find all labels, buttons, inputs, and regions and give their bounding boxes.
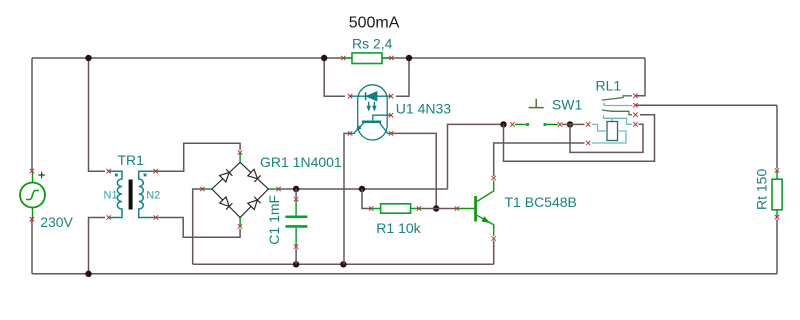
svg-text:R1 10k: R1 10k (376, 220, 421, 236)
svg-text:T1 BC548B: T1 BC548B (505, 194, 577, 210)
wire SW1 right to coil (562, 123, 585, 125)
wire SW1 right to relay pin4 (570, 124, 643, 152)
node opto emitter ground (340, 261, 346, 267)
svg-text:TR1: TR1 (118, 152, 145, 168)
node Rs right (406, 55, 412, 61)
node cap top (293, 186, 299, 192)
wire opto LED right (396, 58, 409, 96)
svg-text:SW1: SW1 (552, 96, 583, 112)
resistor Rt 150 (776, 171, 778, 218)
wire secondary top to bridge (156, 143, 240, 171)
AC source V1 230V (20, 171, 45, 219)
svg-text:Rs 2,4: Rs 2,4 (352, 35, 393, 51)
svg-text:C1 1mF: C1 1mF (266, 195, 282, 245)
node base (433, 205, 439, 211)
wire ground rail (193, 263, 494, 265)
wire SW1 left to relay pin3 (504, 115, 655, 162)
wire bridge minus to ground rail (193, 189, 203, 264)
wire relay pin2 to right rail (636, 104, 778, 106)
node bottom rail / primary (85, 271, 91, 277)
wire bridge plus line (279, 188, 448, 190)
node top rail / primary (85, 55, 91, 61)
node Rs left (321, 55, 327, 61)
wire base node (419, 208, 457, 210)
wire right rail upper (776, 105, 778, 168)
wire R1 jog down (362, 189, 371, 209)
bridge rectifier GR1 (202, 153, 278, 227)
transformer TR1 (109, 171, 156, 217)
wire TR1 primary top (89, 58, 106, 171)
wire secondary bottom to bridge (156, 218, 240, 238)
node SW1 right (567, 121, 573, 127)
wire right rail lower (776, 220, 778, 274)
wire relay pin1 to top rail (636, 58, 646, 96)
transistor T1 BC548B (457, 181, 494, 237)
optocoupler U1 4N33 (350, 85, 391, 140)
node SW1 left (500, 121, 506, 127)
svg-text:500mA: 500mA (349, 15, 400, 32)
resistor R1 10k (371, 208, 419, 210)
svg-text:N1: N1 (104, 190, 118, 202)
wire opto emitter to ground (344, 133, 350, 264)
relay RL1 (592, 96, 632, 143)
svg-text:230V: 230V (40, 214, 73, 230)
wire opto LED left (324, 58, 345, 96)
wire left rail upper (31, 58, 33, 171)
svg-text:GR1 1N4001: GR1 1N4001 (260, 154, 342, 170)
svg-text:U1 4N33: U1 4N33 (396, 100, 451, 116)
wire T1 collector to coil (494, 143, 585, 176)
resistor Rs 2,4 (343, 57, 391, 59)
node R1 jog (359, 186, 365, 192)
svg-text:Rt 150: Rt 150 (754, 169, 770, 210)
node cap bottom (293, 261, 299, 267)
wire left rail lower (31, 219, 33, 274)
wire plus to SW1 riser (448, 124, 504, 189)
wire T1 emitter down (493, 241, 495, 265)
svg-text:RL1: RL1 (596, 78, 622, 94)
wire bottom rail (32, 273, 777, 275)
wire opto collector to base node (391, 133, 436, 208)
wire TR1 primary bottom (89, 218, 106, 274)
capacitor C1 1mF (295, 189, 297, 264)
svg-text:N2: N2 (146, 190, 160, 202)
wire top rail (32, 57, 645, 59)
